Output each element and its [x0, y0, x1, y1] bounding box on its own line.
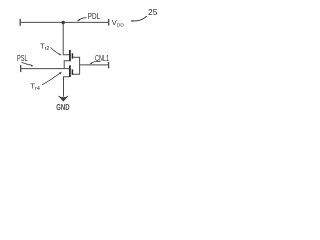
- ground symbol: [59, 96, 69, 101]
- wire: shared drain bracket of Tr2/Tr4: [72, 57, 79, 74]
- wire: CNL1 output line: [80, 64, 109, 66]
- transistor Tr4 plate bars: [70, 65, 73, 77]
- svg-text:PDL: PDL: [88, 11, 101, 21]
- wire: Tr2 lower-left lead down to PSL node: [64, 61, 69, 69]
- wire: vertical drop from rail to Tr2: [63, 22, 69, 54]
- wire: Tr4 source lead to ground drop: [64, 77, 70, 97]
- svg-text:GND: GND: [56, 103, 69, 112]
- terminal tick: rail left end: [19, 19, 21, 26]
- terminal tick: PSL left end: [20, 65, 22, 72]
- wire: VDD power rail (PDL): [20, 21, 109, 23]
- terminal tick: CNL1 right end: [108, 62, 110, 69]
- transistor Tr2 plate bars: [70, 50, 73, 61]
- terminal tick: rail right end at VDD: [108, 19, 110, 26]
- svg-text:25: 25: [148, 7, 158, 17]
- wire: PSL input line: [21, 68, 70, 70]
- node: junction dot on rail: [62, 21, 65, 24]
- svg-text:PSL: PSL: [17, 53, 28, 63]
